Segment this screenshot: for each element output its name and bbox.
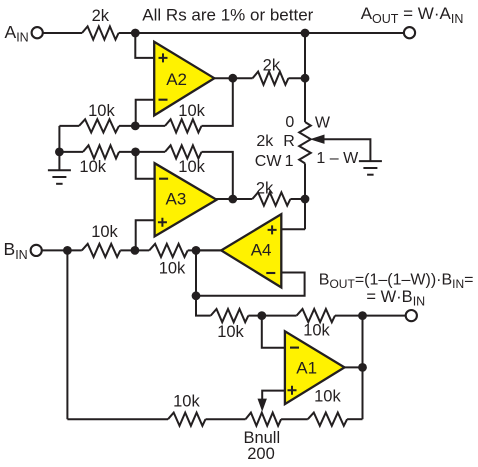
A2 + pin mark	[159, 53, 168, 62]
wire bottom rail right	[347, 418, 362, 420]
op-amp A4	[221, 214, 281, 287]
junction pot bottom node	[301, 195, 310, 204]
wire A2 feedback to output	[202, 78, 233, 126]
junction A3 inverting node	[131, 148, 140, 157]
terminal A_OUT	[404, 27, 415, 38]
terminal B_OUT	[406, 310, 417, 321]
wire A1 +in to wiper	[262, 391, 285, 400]
wire B_OUT row right	[335, 315, 406, 317]
svg-text:2k: 2k	[263, 57, 281, 75]
wire B_IN branch down	[66, 250, 68, 419]
wire bottom mid	[206, 418, 246, 420]
junction A4 feedback node	[192, 291, 201, 300]
wire A3 feedback to output	[202, 152, 233, 199]
wire row2 left	[59, 151, 83, 153]
terminal B_IN	[31, 245, 42, 256]
resistor 10k (to A4 out)	[149, 244, 188, 257]
svg-text:10k: 10k	[178, 102, 205, 120]
wire A3 out	[217, 198, 253, 201]
svg-text:10k: 10k	[217, 323, 244, 341]
wire A4 +in	[281, 228, 305, 230]
svg-text:A1: A1	[296, 358, 317, 377]
svg-text:10k: 10k	[173, 392, 200, 410]
wire A2 -in to node R1	[136, 100, 155, 126]
resistor 10k (B_IN series)	[82, 244, 121, 257]
junction A3 output	[228, 195, 237, 204]
wire B_IN mid	[120, 249, 149, 251]
wire A3 -in	[136, 152, 155, 179]
wire A2 out	[214, 77, 252, 79]
wire A2 +in from top rail	[135, 33, 154, 58]
wire A4 out	[196, 249, 221, 251]
svg-text:R: R	[283, 133, 295, 150]
resistor 2k (A2 out)	[253, 72, 289, 85]
wire A4 -in feedback	[196, 273, 305, 296]
svg-text:10k: 10k	[178, 158, 205, 176]
svg-text:A4: A4	[251, 241, 272, 260]
svg-text:2k: 2k	[92, 7, 110, 25]
svg-text:= W·BIN: = W·BIN	[366, 288, 425, 309]
A4 + pin mark	[268, 225, 277, 234]
wire A1 -in	[262, 316, 285, 348]
svg-text:AOUT = W·AIN: AOUT = W·AIN	[361, 4, 464, 26]
junction B_IN node	[63, 246, 72, 255]
wire bottom rail left	[67, 418, 168, 420]
svg-text:All Rs are 1% or better: All Rs are 1% or better	[142, 6, 313, 25]
terminal A_IN	[32, 27, 43, 38]
svg-text:1 – W: 1 – W	[316, 150, 359, 167]
junction top-right node	[301, 29, 310, 38]
junction A1 output	[358, 363, 367, 372]
op-amp A3	[155, 163, 217, 236]
wire top rail	[119, 32, 404, 34]
svg-text:A2: A2	[166, 70, 187, 89]
resistor 10k (bottom left)	[168, 413, 206, 426]
ground (wiper)	[359, 161, 382, 175]
wire 2k to pot bottom node	[290, 198, 305, 200]
wire A1 out vertical	[362, 316, 364, 420]
resistor 10k (bottom right)	[308, 413, 347, 426]
resistor 10k (row1 left)	[79, 119, 119, 132]
resistor 10k (Bout row left)	[211, 309, 249, 322]
wire row2 mid	[119, 151, 165, 153]
svg-text:2k: 2k	[256, 180, 274, 198]
Bnull wiper arrow	[258, 399, 267, 412]
junction pot top rail	[301, 74, 310, 83]
junction A3 +in node	[131, 246, 140, 255]
wire row1 mid	[119, 125, 165, 127]
resistor 2k (A_IN series)	[82, 26, 119, 39]
junction A1 output top node	[358, 311, 367, 320]
wire bottom mid2	[281, 418, 308, 420]
A2 - pin mark	[159, 99, 168, 101]
svg-text:10k: 10k	[79, 158, 106, 176]
junction A1 inverting node	[257, 311, 266, 320]
junction A2 inverting node	[131, 122, 140, 131]
wire B_OUT row left	[196, 296, 211, 316]
potentiometer Bnull 200	[246, 413, 282, 426]
wire pot bottom to A4 node	[304, 163, 306, 229]
wire rail down to pot	[304, 33, 306, 122]
op-amp A1	[285, 331, 345, 404]
svg-text:10k: 10k	[88, 102, 115, 120]
svg-text:10k: 10k	[159, 259, 186, 277]
A1 + pin mark	[288, 386, 297, 395]
svg-text:2k: 2k	[256, 133, 274, 150]
wire A_IN to R 2k	[43, 32, 82, 34]
ground (left)	[48, 152, 71, 184]
junction A4 output node	[192, 246, 201, 255]
resistor 10k (A3 feedback)	[165, 145, 202, 158]
resistor 10k (A2 feedback)	[165, 119, 202, 132]
svg-text:0: 0	[285, 114, 294, 131]
svg-text:1: 1	[285, 153, 294, 170]
svg-text:200: 200	[247, 445, 275, 463]
wire 2k to pot rail	[288, 77, 305, 79]
op-amp A2	[154, 42, 214, 116]
svg-text:AIN: AIN	[5, 22, 29, 45]
svg-text:CW: CW	[255, 153, 283, 170]
resistor 10k (row2 left)	[83, 145, 119, 158]
svg-text:W: W	[315, 115, 331, 132]
svg-text:10k: 10k	[303, 322, 330, 340]
wire left node vertical	[58, 126, 60, 152]
junction A2 output	[228, 74, 237, 83]
junction ground node	[55, 148, 64, 157]
wire row1 left	[59, 125, 79, 127]
wire B_IN	[41, 249, 81, 251]
svg-text:BIN: BIN	[4, 239, 28, 262]
wire A4 output vertical	[195, 250, 197, 315]
resistor 10k (A1 feedback)	[297, 309, 335, 322]
svg-text:A3: A3	[166, 189, 187, 208]
pot wiper arrow	[310, 135, 371, 162]
A1 - pin mark	[290, 347, 299, 349]
wire to A4 apex	[188, 249, 222, 251]
svg-text:10k: 10k	[91, 223, 118, 241]
potentiometer R 2k	[299, 122, 311, 163]
A4 - pin mark	[266, 272, 275, 274]
wire B_OUT row mid	[248, 315, 296, 317]
resistor 2k (A3 out)	[252, 192, 290, 205]
wire A3 +in	[136, 220, 155, 250]
A3 + pin mark	[158, 218, 167, 227]
svg-text:10k: 10k	[314, 388, 341, 406]
wire A1 out	[345, 366, 363, 368]
junction top-left node	[131, 29, 140, 38]
A3 - pin mark	[159, 178, 168, 180]
